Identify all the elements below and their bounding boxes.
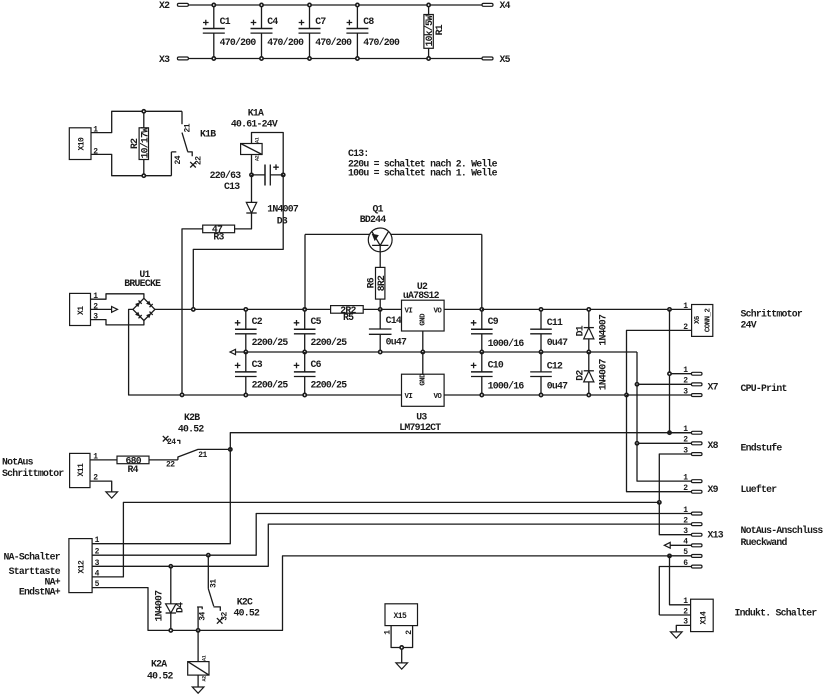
svg-text:X2: X2	[159, 0, 170, 11]
svg-text:A2: A2	[255, 155, 261, 161]
svg-text:24V: 24V	[741, 319, 757, 330]
svg-text:2: 2	[683, 436, 688, 445]
svg-text:X13: X13	[708, 529, 724, 540]
relay contact K2B	[163, 412, 231, 470]
svg-text:GND: GND	[420, 313, 428, 326]
svg-text:X8: X8	[708, 440, 719, 451]
ground X14	[671, 632, 683, 638]
terminal X9 pin2	[683, 484, 702, 493]
svg-text:X4: X4	[500, 0, 511, 11]
svg-text:10/17W: 10/17W	[139, 127, 150, 159]
svg-text:X14: X14	[700, 611, 709, 625]
svg-text:C8: C8	[363, 16, 374, 27]
svg-text:2200/25: 2200/25	[311, 380, 348, 391]
svg-text:40.52: 40.52	[147, 670, 174, 681]
resistor R5	[331, 305, 402, 323]
wire mid net to X9 pin1	[637, 443, 691, 481]
svg-text:1: 1	[683, 597, 688, 606]
svg-text:C4: C4	[267, 16, 278, 27]
svg-text:24: 24	[174, 155, 183, 164]
capacitor C2	[235, 308, 289, 354]
wire K2B to X8 pin1	[230, 433, 691, 450]
terminal X8 pin1	[668, 425, 702, 434]
SEC-K1A	[182, 108, 498, 395]
svg-text:VI: VI	[405, 393, 413, 401]
connector X14	[683, 597, 713, 632]
svg-text:C10: C10	[488, 359, 504, 370]
connector X12	[69, 536, 100, 592]
svg-text:0u47: 0u47	[547, 337, 568, 348]
capacitor C3	[235, 352, 289, 397]
svg-text:VI: VI	[405, 307, 413, 315]
svg-text:C11: C11	[547, 317, 563, 328]
node X8.3 junction	[658, 501, 661, 504]
SEC-TOP	[159, 0, 511, 65]
svg-text:C1: C1	[220, 16, 231, 27]
svg-text:X11: X11	[77, 463, 86, 477]
wire Q1 collector down	[304, 234, 306, 309]
svg-text:C13:: C13:	[348, 148, 369, 159]
svg-text:GND: GND	[420, 373, 428, 386]
svg-text:C5: C5	[311, 316, 322, 327]
svg-text:X10: X10	[78, 137, 87, 151]
wire main rail right	[482, 308, 670, 310]
terminal X7 pin3	[627, 387, 703, 396]
transistor Q1	[305, 203, 482, 267]
node U2 gnd junction	[421, 350, 424, 353]
terminal X13 pin5	[668, 548, 702, 557]
capacitor C10	[471, 352, 525, 397]
wire mid rail with arrow	[230, 349, 637, 354]
capacitor C6	[294, 352, 348, 397]
svg-text:24: 24	[167, 438, 176, 447]
svg-text:VO: VO	[434, 307, 443, 315]
relay contact K2C	[197, 555, 260, 630]
wire X10 pin2 to bottom rail	[91, 154, 171, 175]
capacitor C14	[369, 309, 407, 353]
svg-text:R4: R4	[128, 464, 139, 475]
svg-text:NotAus: NotAus	[2, 457, 34, 468]
resistor R3	[182, 224, 235, 395]
svg-text:Indukt. Schalter: Indukt. Schalter	[735, 608, 818, 619]
SEC-BOTTOM	[2, 412, 691, 693]
svg-text:1N4007: 1N4007	[597, 314, 608, 346]
svg-text:CONN_2: CONN_2	[704, 309, 712, 333]
svg-text:LM7912CT: LM7912CT	[399, 422, 441, 433]
svg-text:NotAus-Anschluss: NotAus-Anschluss	[741, 525, 824, 536]
svg-text:X7: X7	[708, 381, 719, 392]
node K2B junction	[229, 448, 232, 451]
diode D4	[154, 566, 186, 630]
svg-text:X9: X9	[708, 484, 719, 495]
svg-text:U3: U3	[416, 411, 427, 422]
svg-text:2200/25: 2200/25	[311, 337, 348, 348]
svg-text:2200/25: 2200/25	[252, 337, 289, 348]
svg-text:BD244: BD244	[360, 214, 387, 225]
wire mid rail to X7 pin2	[637, 352, 691, 384]
svg-text:220/63: 220/63	[210, 170, 242, 181]
svg-text:470/200: 470/200	[315, 37, 352, 48]
wire top rail	[188, 4, 482, 6]
node K2C top junction	[207, 554, 210, 557]
terminal X13 pin4 with arrow	[664, 538, 702, 549]
wire K1A branch to rail	[193, 175, 283, 310]
svg-text:D1: D1	[574, 325, 585, 336]
node X1 pin2 arrow	[91, 307, 118, 313]
connector X15	[384, 604, 418, 663]
svg-text:21: 21	[184, 123, 193, 132]
terminal X7 pin1	[668, 366, 702, 375]
node K2A junction	[196, 629, 199, 632]
wire X12 pin3 to X13 pin2	[92, 524, 691, 566]
connector X6	[683, 302, 713, 336]
wire X12 pin4 to X13 pin3 net	[92, 502, 659, 577]
resistor R2	[129, 110, 150, 178]
node D4 top junction	[169, 565, 172, 568]
svg-text:Schrittmotor: Schrittmotor	[2, 468, 64, 479]
svg-text:2: 2	[683, 484, 688, 493]
connector X1	[70, 292, 99, 325]
SEC-X10	[69, 110, 216, 178]
resistor R4	[117, 455, 178, 475]
svg-text:C12: C12	[547, 361, 563, 372]
terminal X13 pin3	[683, 527, 702, 536]
wire K2B down to X12 pin1	[92, 449, 230, 543]
svg-text:X5: X5	[500, 54, 511, 65]
svg-text:Rueckwand: Rueckwand	[741, 537, 788, 548]
wire X13.5 net down to X14 pin1	[670, 556, 691, 605]
connector X11	[70, 452, 99, 487]
svg-text:0u47: 0u47	[386, 337, 407, 348]
svg-text:CPU-Print: CPU-Print	[741, 383, 787, 394]
voltage regulator U2	[402, 281, 482, 352]
svg-text:A2: A2	[202, 676, 208, 682]
svg-text:1000/16: 1000/16	[488, 381, 525, 392]
terminal X9 pin1	[683, 473, 702, 482]
svg-text:3: 3	[683, 387, 688, 396]
svg-text:470/200: 470/200	[220, 37, 257, 48]
svg-text:EndstNA+: EndstNA+	[19, 587, 61, 598]
svg-text:C3: C3	[252, 359, 263, 370]
wire X12 pin5 to bottom net	[92, 556, 691, 631]
svg-text:22: 22	[166, 460, 175, 469]
wire +24V vertical	[669, 309, 671, 432]
wire X11 pin1 to R4	[90, 459, 117, 461]
svg-text:3: 3	[683, 527, 688, 536]
svg-text:D2: D2	[574, 370, 585, 381]
node C13 junctions	[250, 173, 253, 176]
svg-text:D3: D3	[277, 216, 288, 227]
svg-text:470/200: 470/200	[267, 37, 304, 48]
svg-text:C7: C7	[315, 16, 326, 27]
terminal X8 pin3	[659, 446, 702, 502]
svg-text:R1: R1	[434, 24, 445, 35]
svg-text:X15: X15	[394, 612, 408, 621]
terminal X8 pin2	[635, 436, 702, 445]
SEC-MAIN	[70, 203, 670, 433]
svg-text:4: 4	[683, 538, 688, 547]
svg-text:K1B: K1B	[200, 129, 216, 140]
svg-text:0u47: 0u47	[547, 381, 568, 392]
diode D1	[574, 308, 608, 354]
svg-text:X1: X1	[77, 306, 86, 315]
diode D2	[574, 352, 608, 397]
resistor R1	[424, 3, 445, 60]
svg-text:100u = schaltet nach 1. Welle: 100u = schaltet nach 1. Welle	[348, 167, 498, 178]
wire X6 pin2 to bottom rail	[627, 330, 692, 395]
capacitor C7	[299, 3, 353, 60]
terminal X3	[159, 54, 188, 65]
svg-text:22: 22	[194, 156, 203, 165]
svg-text:NA-Schalter: NA-Schalter	[4, 552, 61, 563]
svg-text:31: 31	[210, 579, 219, 588]
wire bridge minus down to bottom rail	[129, 309, 402, 395]
svg-text:R5: R5	[343, 312, 354, 323]
wire Q1 emitter down	[481, 234, 483, 309]
svg-text:X6: X6	[694, 315, 702, 324]
svg-text:C13: C13	[224, 181, 240, 192]
svg-text:1: 1	[95, 536, 100, 545]
terminal X5	[482, 54, 511, 65]
relay coil K2A	[147, 630, 209, 687]
note text C13	[348, 148, 498, 178]
svg-text:40.61-24V: 40.61-24V	[231, 118, 278, 129]
capacitor C11	[530, 308, 568, 354]
svg-text:2: 2	[683, 377, 688, 386]
svg-text:6: 6	[683, 559, 688, 568]
svg-text:X12: X12	[78, 560, 87, 574]
ground X15	[396, 663, 408, 669]
capacitor C1	[203, 3, 257, 60]
svg-text:K1A: K1A	[248, 108, 264, 119]
svg-text:Schrittmotor: Schrittmotor	[741, 309, 803, 320]
svg-text:Luefter: Luefter	[741, 484, 778, 495]
terminal X13 pin6	[659, 559, 702, 615]
SEC-RIGHT	[625, 302, 824, 638]
svg-text:1N4007: 1N4007	[267, 204, 299, 215]
svg-text:2: 2	[93, 302, 98, 311]
wire bottom rail	[188, 58, 482, 60]
wire X8.3 down to X13 pin3	[659, 502, 691, 534]
svg-text:VO: VO	[434, 393, 443, 401]
connector X10	[69, 126, 98, 160]
svg-text:2200/25: 2200/25	[252, 380, 289, 391]
svg-text:C6: C6	[311, 359, 322, 370]
svg-text:40.52: 40.52	[234, 607, 261, 618]
wire X12 pin2 to X13 pin1	[92, 514, 691, 556]
node rail junctions	[192, 308, 195, 311]
svg-text:K2A: K2A	[151, 659, 167, 670]
relay coil K1A	[231, 108, 283, 175]
svg-text:R3: R3	[213, 232, 224, 243]
svg-text:1N4007: 1N4007	[154, 590, 165, 622]
svg-text:X3: X3	[159, 54, 170, 65]
node bottom rail junction R3	[180, 393, 183, 396]
terminal X13 pin2	[683, 516, 702, 525]
svg-text:Q1: Q1	[373, 203, 384, 214]
svg-text:470/200: 470/200	[363, 37, 400, 48]
svg-text:21: 21	[198, 451, 207, 460]
svg-text:BRUECKE: BRUECKE	[124, 278, 161, 289]
capacitor C13	[210, 164, 284, 192]
ground X11	[106, 492, 118, 498]
svg-text:D4: D4	[175, 602, 186, 613]
wire X10 pin1 to top rail	[91, 111, 182, 132]
bridge rectifier U1	[124, 269, 161, 320]
svg-text:1: 1	[683, 473, 688, 482]
diode D3	[235, 175, 299, 229]
wire X1 pin1 to bridge AC top	[91, 294, 144, 299]
wire X6 pin1	[670, 308, 692, 310]
wire main rail	[155, 308, 331, 310]
svg-text:1000/16: 1000/16	[488, 338, 525, 349]
svg-text:uA78S12: uA78S12	[403, 290, 440, 301]
ground K2A	[192, 687, 204, 693]
node R6 rail junction	[379, 308, 382, 311]
wire X14 pin2	[659, 614, 690, 616]
svg-text:40.52: 40.52	[178, 423, 205, 434]
node D4 bottom junction	[169, 629, 172, 632]
svg-text:34: 34	[199, 612, 208, 621]
capacitor C8	[346, 3, 400, 60]
wire X1 pin3 to bridge AC bottom	[91, 320, 144, 325]
relay contact K1B	[171, 111, 216, 175]
capacitor C12	[530, 352, 568, 397]
svg-text:C14: C14	[386, 315, 402, 326]
svg-text:1N4007: 1N4007	[597, 359, 608, 391]
resistor R6	[366, 267, 387, 309]
terminal X4	[482, 0, 511, 11]
svg-text:K2B: K2B	[184, 412, 200, 423]
terminal X13 pin1	[683, 506, 702, 515]
terminal X7 pin2	[635, 377, 702, 386]
wire bottom net to X9 pin2	[627, 395, 692, 492]
wire mid net vertical	[636, 384, 638, 443]
terminal X2	[159, 0, 188, 11]
capacitor C9	[471, 308, 525, 354]
wire X14 pin3 to ground	[676, 625, 690, 632]
svg-text:C9: C9	[488, 316, 499, 327]
svg-text:K2C: K2C	[237, 596, 253, 607]
capacitor C4	[251, 3, 305, 60]
svg-text:1: 1	[683, 366, 688, 375]
voltage regulator U3	[399, 352, 626, 433]
capacitor C5	[294, 308, 348, 354]
wire X11 pin2 to ground	[90, 481, 112, 492]
svg-text:A1: A1	[202, 655, 208, 661]
svg-text:3: 3	[683, 446, 688, 455]
svg-text:C2: C2	[252, 316, 263, 327]
svg-text:A1: A1	[255, 137, 261, 143]
svg-text:Endstufe: Endstufe	[741, 442, 783, 453]
svg-text:8R2: 8R2	[376, 275, 387, 291]
